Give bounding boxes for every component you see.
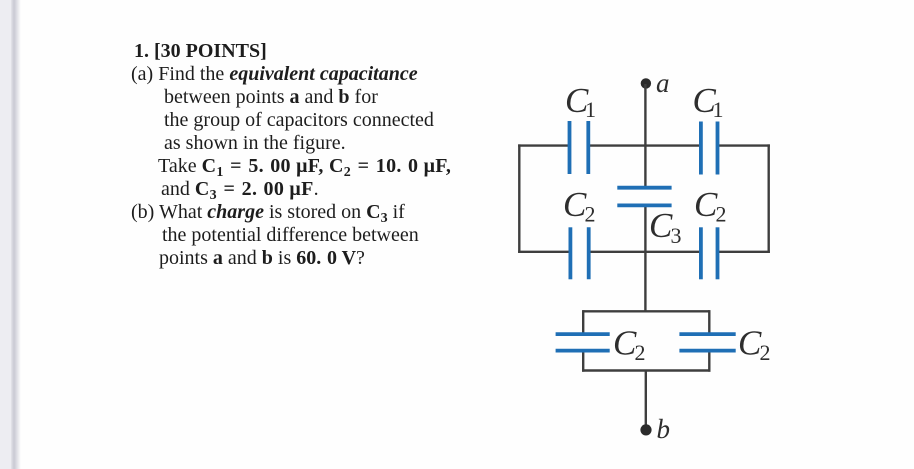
wire: lower box left edge upper part (582, 310, 584, 334)
svg-text:b: b (657, 414, 671, 444)
wire: lower box right edge upper part (708, 310, 710, 334)
wire: bottom edge between C2 pairs (589, 251, 701, 253)
svg-text:2: 2 (760, 340, 771, 365)
wire: outer rect left edge (518, 144, 520, 253)
wire: C3 bottom plate down to lower box (644, 206, 646, 312)
label C1 right (693, 81, 724, 122)
capacitor C1 left plates (570, 121, 589, 174)
svg-text:a: a (656, 68, 670, 98)
svg-text:2: 2 (716, 202, 727, 227)
label C2 upper-left (563, 185, 596, 227)
capacitor C2 upper-right plates (701, 227, 718, 279)
wire: outer rect right edge (768, 144, 770, 253)
node a (641, 78, 651, 88)
label C2 upper-right (694, 185, 727, 227)
wire: lower box to node b (645, 371, 647, 429)
wire: lower box left edge lower part (582, 351, 584, 372)
label C2 lower-right (738, 324, 771, 366)
svg-text:C: C (563, 185, 587, 224)
capacitor C2 lower-left plates (556, 334, 610, 351)
wire: bottom edge left segment to C2 left (518, 251, 570, 253)
label C1 left (565, 81, 596, 122)
left page-edge strip (0, 0, 11, 469)
wire: top edge right segment from C1 right (718, 144, 770, 146)
label node b (657, 414, 671, 444)
wire: a down to C3 top plate (644, 84, 646, 188)
svg-text:1: 1 (713, 97, 724, 122)
node b (640, 424, 651, 435)
svg-text:C: C (738, 324, 762, 363)
label C2 lower-left (613, 324, 646, 366)
svg-text:C: C (613, 324, 637, 363)
capacitor C1 right plates (701, 122, 718, 175)
svg-text:1: 1 (585, 97, 596, 122)
capacitor C2 lower-right plates (679, 334, 735, 351)
wire: lower box right edge lower part (708, 351, 710, 372)
svg-text:C: C (694, 185, 718, 224)
svg-text:C: C (649, 206, 673, 245)
capacitor C2 upper-left plates (570, 227, 588, 279)
label node a (656, 68, 670, 98)
label C3 (649, 206, 682, 248)
svg-text:2: 2 (585, 202, 596, 227)
capacitor C3 plates (617, 188, 671, 206)
wire: top edge between C1 plates pairs (588, 144, 701, 146)
wire: lower box top edge (583, 310, 709, 312)
svg-text:2: 2 (635, 340, 646, 365)
problem text (134, 41, 267, 61)
wire: bottom edge right segment from C2 right (718, 251, 770, 253)
svg-text:3: 3 (671, 223, 682, 248)
wire: lower box bottom edge (582, 369, 711, 371)
wire: top edge left segment to C1 left (518, 144, 569, 146)
